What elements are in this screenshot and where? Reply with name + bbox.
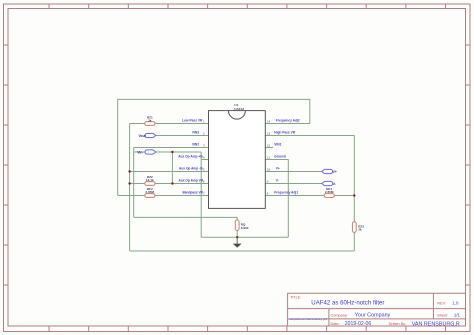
svg-text:Low Pass VR: Low Pass VR bbox=[182, 119, 203, 123]
svg-text:Ground: Ground bbox=[274, 155, 286, 159]
svg-text:12.1k: 12.1k bbox=[146, 178, 154, 182]
svg-text:14: 14 bbox=[267, 120, 271, 124]
svg-text:UAF42 as 60Hz-notch filter: UAF42 as 60Hz-notch filter bbox=[311, 300, 384, 307]
svg-text:Bandpass VR: Bandpass VR bbox=[182, 191, 203, 195]
svg-text:Company:: Company: bbox=[331, 313, 348, 317]
svg-text:V-: V- bbox=[276, 179, 279, 183]
svg-text:13: 13 bbox=[267, 132, 271, 136]
svg-text:6.90k: 6.90k bbox=[241, 226, 249, 230]
svg-text:1/1: 1/1 bbox=[454, 313, 461, 318]
svg-text:VAN RENSBURG,R: VAN RENSBURG,R bbox=[412, 321, 460, 327]
svg-text:2k: 2k bbox=[148, 118, 152, 122]
svg-text:Frequency Adj2: Frequency Adj2 bbox=[276, 119, 300, 123]
svg-text:11: 11 bbox=[267, 156, 270, 160]
svg-text:Your Company: Your Company bbox=[355, 313, 391, 319]
svg-text:Frequency Adj1: Frequency Adj1 bbox=[274, 191, 298, 195]
svg-text:V+: V+ bbox=[333, 170, 337, 174]
svg-text:Sheet:: Sheet: bbox=[437, 313, 448, 317]
svg-text:V-: V- bbox=[333, 182, 336, 186]
svg-text:V+: V+ bbox=[276, 167, 280, 171]
svg-text:easyeda.com/vanrensburg.g/U: easyeda.com/vanrensburg.g/U bbox=[289, 317, 327, 321]
svg-text:VIN2: VIN2 bbox=[192, 143, 199, 147]
svg-text:Aux Op Amp VR: Aux Op Amp VR bbox=[179, 179, 204, 183]
svg-text:2.65M: 2.65M bbox=[145, 190, 154, 194]
svg-text:VIN3: VIN3 bbox=[192, 131, 199, 135]
svg-text:VIN1: VIN1 bbox=[274, 143, 281, 147]
svg-text:TITLE:: TITLE: bbox=[290, 296, 301, 300]
svg-text:10: 10 bbox=[267, 168, 271, 172]
svg-text:2.65M: 2.65M bbox=[325, 190, 334, 194]
svg-text:REV:: REV: bbox=[437, 301, 446, 305]
svg-text:Aux Op Amp -In: Aux Op Amp -In bbox=[179, 167, 203, 171]
svg-text:Vout: Vout bbox=[139, 134, 147, 138]
svg-text:Drawn By:: Drawn By: bbox=[389, 322, 407, 326]
svg-text:1.0: 1.0 bbox=[452, 301, 459, 306]
svg-text:High Pass VR: High Pass VR bbox=[274, 131, 295, 135]
svg-text:Date:: Date: bbox=[331, 322, 340, 326]
svg-text:Vin: Vin bbox=[137, 150, 142, 154]
svg-text:2k: 2k bbox=[358, 228, 362, 232]
svg-text:UAF42: UAF42 bbox=[234, 107, 244, 111]
svg-text:12: 12 bbox=[267, 144, 271, 148]
svg-text:2019-02-06: 2019-02-06 bbox=[345, 321, 372, 327]
svg-text:Aux Op Amp +In: Aux Op Amp +In bbox=[178, 155, 203, 159]
